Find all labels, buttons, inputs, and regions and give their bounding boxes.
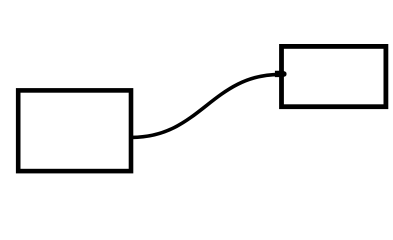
block 1 (left rectangle) bbox=[18, 90, 131, 171]
arrowhead at block 2 bbox=[275, 71, 287, 77]
block 2 (right rectangle) bbox=[282, 46, 386, 106]
wire (curved connector) bbox=[132, 74, 280, 137]
